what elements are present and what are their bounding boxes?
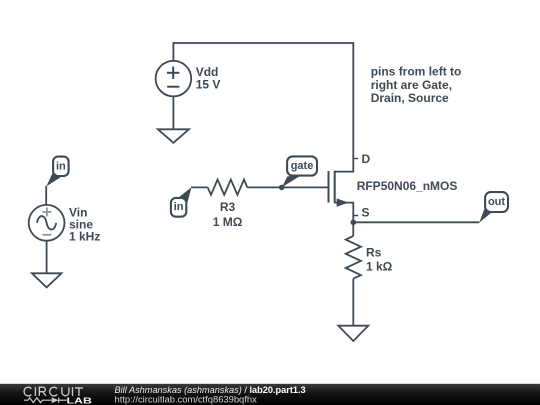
svg-text:in: in [174,201,184,213]
svg-text:Rs: Rs [366,246,382,260]
svg-text:http://circuitlab.com/ctfq8639: http://circuitlab.com/ctfq8639bqfhx [115,393,258,404]
svg-text:LAB: LAB [67,395,92,405]
svg-text:pins from left to: pins from left to [371,65,462,79]
svg-text:15 V: 15 V [196,78,221,92]
svg-text:Drain, Source: Drain, Source [371,91,449,105]
svg-text:1 MΩ: 1 MΩ [213,215,243,229]
svg-text:gate: gate [291,160,314,172]
svg-text:1 kHz: 1 kHz [69,230,100,244]
svg-text:out: out [488,196,505,208]
svg-text:1 kΩ: 1 kΩ [366,259,393,273]
svg-text:right are Gate,: right are Gate, [371,78,452,92]
svg-text:RFP50N06_nMOS: RFP50N06_nMOS [357,179,458,193]
svg-text:R3: R3 [220,200,236,214]
svg-text:S: S [362,205,370,219]
svg-text:in: in [56,160,66,172]
svg-text:D: D [362,152,371,166]
